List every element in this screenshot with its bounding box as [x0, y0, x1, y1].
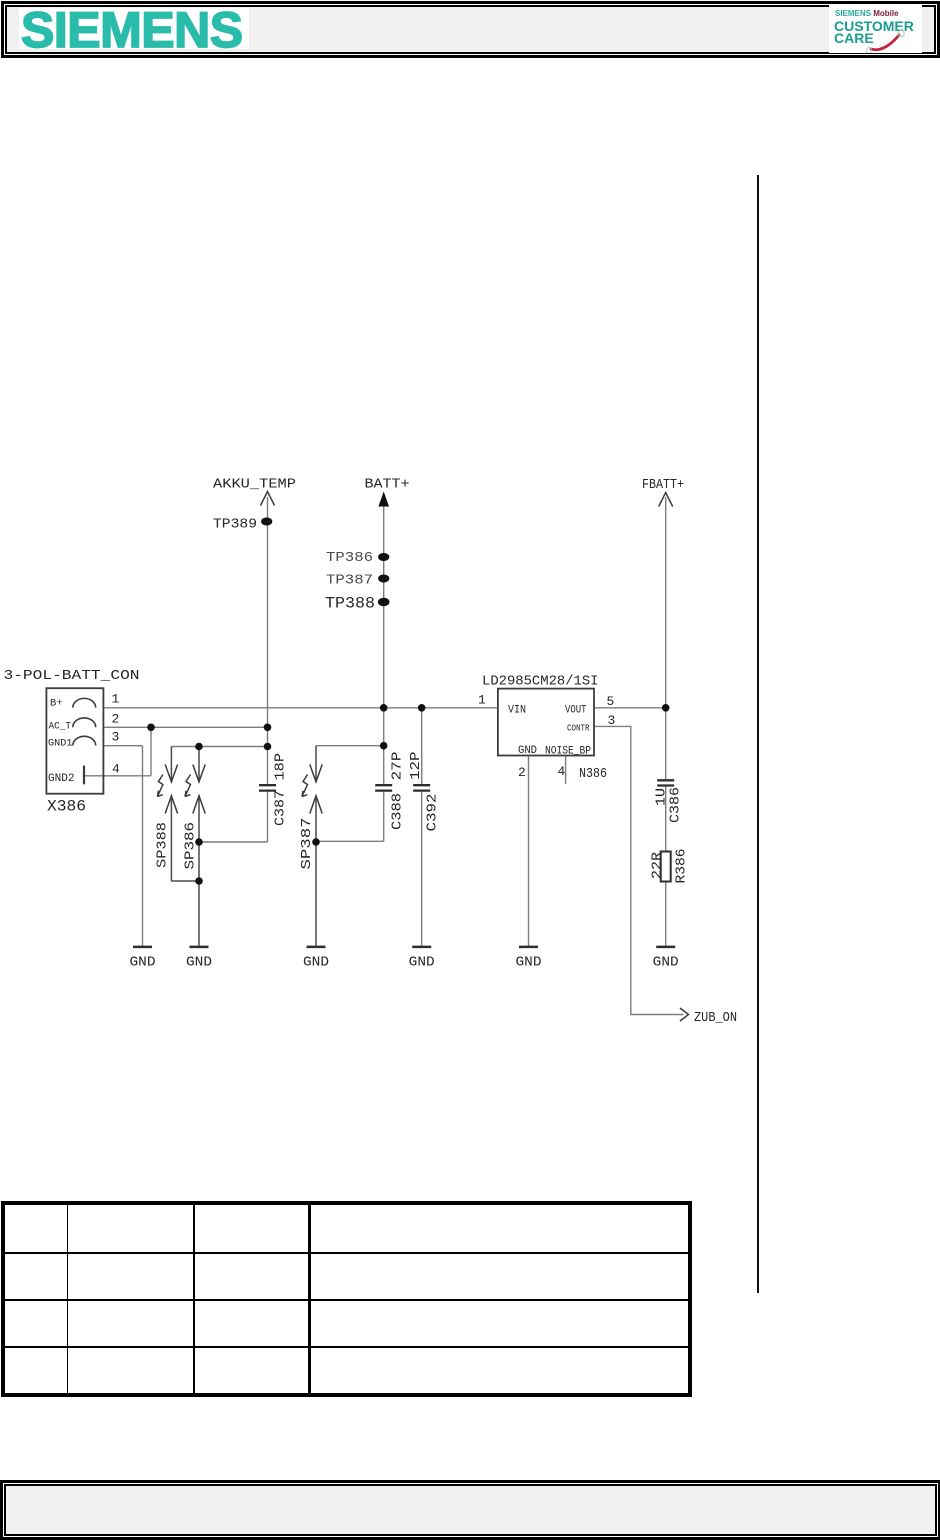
- svg-text:LD2985CM28/1SI: LD2985CM28/1SI: [482, 674, 599, 690]
- svg-text:BATT+: BATT+: [365, 477, 410, 493]
- svg-text:4: 4: [112, 762, 120, 777]
- svg-text:4: 4: [558, 764, 566, 779]
- svg-text:1: 1: [112, 692, 120, 707]
- svg-text:TP388: TP388: [325, 595, 375, 613]
- svg-text:TP387: TP387: [326, 573, 373, 589]
- svg-text:GND: GND: [303, 955, 329, 971]
- svg-text:GND: GND: [518, 745, 537, 757]
- svg-text:3: 3: [112, 730, 120, 745]
- svg-text:C392: C392: [425, 794, 441, 832]
- svg-text:3: 3: [608, 713, 616, 728]
- svg-text:GND1: GND1: [48, 738, 73, 750]
- svg-text:C388: C388: [390, 793, 406, 830]
- svg-text:AC_T: AC_T: [49, 721, 72, 733]
- svg-text:N386: N386: [579, 766, 607, 782]
- svg-text:FBATT+: FBATT+: [642, 477, 684, 493]
- svg-text:TP386: TP386: [326, 550, 373, 566]
- svg-text:SP386: SP386: [183, 822, 199, 870]
- svg-text:22R: 22R: [650, 851, 666, 879]
- svg-text:X386: X386: [47, 798, 86, 816]
- svg-text:5: 5: [607, 694, 615, 709]
- svg-text:TP389: TP389: [213, 517, 257, 533]
- svg-text:VIN: VIN: [508, 705, 526, 717]
- svg-text:NOISE_BP: NOISE_BP: [545, 746, 591, 758]
- svg-text:GND: GND: [409, 955, 435, 971]
- svg-text:VOUT: VOUT: [565, 705, 587, 717]
- svg-text:R386: R386: [674, 849, 690, 884]
- svg-text:ZUB_ON: ZUB_ON: [694, 1010, 737, 1026]
- svg-text:2: 2: [112, 712, 120, 727]
- svg-text:2: 2: [518, 765, 526, 780]
- svg-text:C387: C387: [273, 790, 289, 826]
- svg-text:AKKU_TEMP: AKKU_TEMP: [213, 477, 296, 493]
- svg-text:GND: GND: [653, 955, 679, 971]
- svg-text:18P: 18P: [273, 753, 289, 781]
- svg-text:GND: GND: [186, 955, 212, 971]
- svg-text:CONTR: CONTR: [567, 723, 590, 734]
- svg-text:12P: 12P: [408, 752, 424, 781]
- svg-text:C386: C386: [668, 787, 684, 823]
- svg-text:27P: 27P: [390, 752, 406, 781]
- svg-text:GND: GND: [516, 955, 542, 971]
- svg-text:GND: GND: [130, 955, 156, 971]
- svg-text:GND2: GND2: [48, 773, 75, 785]
- svg-text:1U: 1U: [654, 788, 670, 806]
- svg-text:B+: B+: [50, 698, 63, 710]
- svg-text:3-POL-BATT_CON: 3-POL-BATT_CON: [4, 668, 140, 684]
- svg-text:SP387: SP387: [299, 818, 315, 870]
- svg-text:SP388: SP388: [155, 822, 171, 868]
- svg-text:1: 1: [478, 693, 486, 708]
